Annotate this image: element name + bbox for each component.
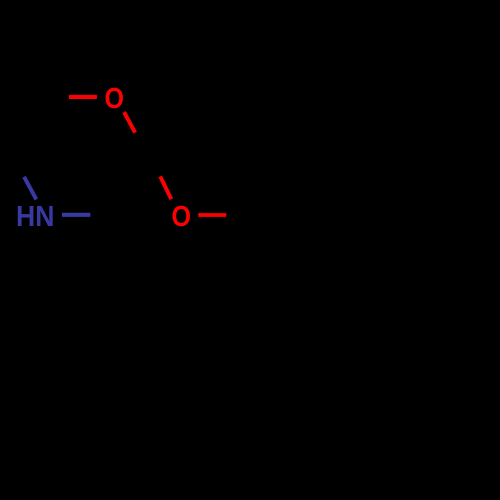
bond N-C3 (blue half, horizontal right of HN) (62, 213, 90, 217)
bond C5-N (blue half, diagonal above HN) (24, 177, 36, 200)
bond O3-C7 (red half, horizontal right of bottom O) (198, 213, 226, 217)
bond C2-O3 (red half, diagonal into bottom O) (160, 176, 171, 199)
bond O1-C2 (red half, diagonal from top O going down-right) (124, 112, 135, 133)
svg-text:O: O (171, 201, 191, 233)
svg-text:HN: HN (16, 201, 54, 233)
bond O1-C6 (red half, horizontal left of top O) (69, 95, 97, 99)
svg-text:O: O (104, 83, 124, 115)
